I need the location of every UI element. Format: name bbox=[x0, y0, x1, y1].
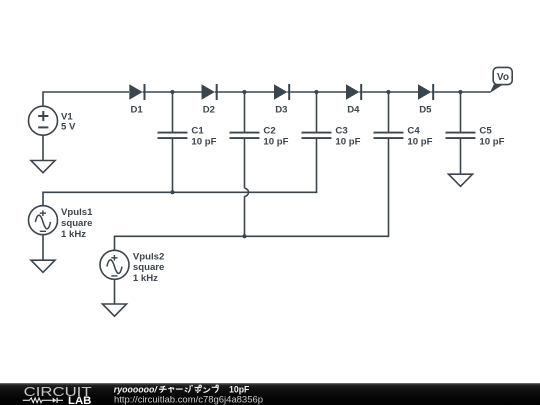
svg-text:Vpuls1: Vpuls1 bbox=[61, 207, 93, 218]
katakana チャージポンプ drawn as paths bbox=[159, 385, 218, 393]
チ bbox=[159, 386, 167, 392]
svg-text:D3: D3 bbox=[275, 105, 287, 116]
svg-text:C4: C4 bbox=[407, 126, 420, 137]
svg-text:D5: D5 bbox=[419, 105, 432, 116]
node junction top C5 bbox=[458, 90, 462, 94]
wire D4 to D5 bbox=[363, 91, 418, 93]
wire Vpuls1 rail bbox=[43, 192, 317, 205]
capacitor C2 bbox=[230, 92, 260, 188]
ground below C5 bbox=[449, 174, 473, 186]
svg-text:http://circuitlab.com/c78g6j4a: http://circuitlab.com/c78g6j4a8356p bbox=[114, 394, 263, 404]
svg-text:5 V: 5 V bbox=[61, 122, 76, 133]
wire D1 to D2 bbox=[146, 91, 202, 93]
ー bbox=[176, 388, 183, 390]
logo wire to LAB bbox=[57, 399, 63, 401]
svg-text:10 pF: 10 pF bbox=[407, 136, 432, 147]
svg-text:square: square bbox=[61, 218, 92, 229]
ン bbox=[203, 388, 210, 393]
capacitor C5 bbox=[446, 92, 476, 174]
logo CIRCUIT LAB wordmark bbox=[24, 385, 92, 405]
ポ bbox=[195, 385, 202, 392]
svg-text:1 kHz: 1 kHz bbox=[133, 273, 158, 284]
svg-text:C1: C1 bbox=[191, 126, 204, 137]
svg-text:Vo: Vo bbox=[497, 72, 509, 83]
wire hop C2 over Vpuls1 rail bbox=[245, 188, 249, 196]
node junction C1 bottom bbox=[170, 190, 174, 194]
svg-text:D4: D4 bbox=[347, 105, 360, 116]
svg-text:C2: C2 bbox=[263, 126, 275, 137]
diode D2 bbox=[202, 84, 219, 100]
wire Vpuls2 to ground bbox=[114, 280, 116, 304]
logo diode glyph bbox=[53, 398, 57, 403]
svg-text:10 pF: 10 pF bbox=[335, 136, 360, 147]
wire Vpuls1 to ground bbox=[42, 235, 44, 260]
diode D1 bbox=[129, 84, 146, 100]
プ bbox=[212, 385, 219, 392]
ground below Vpuls2 bbox=[103, 304, 127, 316]
svg-text:C5: C5 bbox=[479, 126, 492, 137]
node junction top C2 bbox=[242, 90, 246, 94]
wire D3 to D4 bbox=[291, 91, 346, 93]
voltage source Vpuls1 bbox=[29, 206, 58, 235]
capacitor C4 bbox=[374, 92, 404, 236]
svg-text:10pF: 10pF bbox=[229, 385, 250, 395]
node junction top C4 bbox=[386, 90, 390, 94]
wire V1 to ground bbox=[42, 136, 44, 161]
svg-text:C3: C3 bbox=[335, 126, 347, 137]
capacitor C3 bbox=[302, 92, 332, 192]
capacitor C1 bbox=[158, 92, 188, 192]
node junction top C1 bbox=[170, 90, 174, 94]
svg-text:Vpuls2: Vpuls2 bbox=[133, 251, 164, 262]
svg-text:1 kHz: 1 kHz bbox=[61, 229, 86, 240]
ジ bbox=[185, 385, 193, 393]
node flag Vo bbox=[490, 67, 512, 93]
svg-text:D2: D2 bbox=[203, 105, 215, 116]
wire Vpuls2 rail bbox=[115, 236, 389, 250]
ャ bbox=[168, 387, 173, 393]
footer credit line bbox=[114, 385, 263, 405]
wire D2 to D3 bbox=[218, 91, 274, 93]
wire C2 to Vpuls2 rail bbox=[244, 196, 246, 236]
logo resistor glyph bbox=[23, 398, 63, 403]
svg-text:D1: D1 bbox=[131, 105, 144, 116]
diode D3 bbox=[274, 84, 291, 100]
voltage source Vpuls2 bbox=[100, 250, 129, 279]
wire D5 to Vo bbox=[435, 91, 491, 93]
svg-text:LAB: LAB bbox=[68, 395, 92, 405]
svg-text:ryoooooo: ryoooooo bbox=[114, 385, 155, 395]
ground below V1 bbox=[31, 161, 55, 173]
svg-text:10 pF: 10 pF bbox=[263, 136, 288, 147]
svg-text:10 pF: 10 pF bbox=[191, 136, 216, 147]
diode D5 bbox=[418, 84, 435, 100]
diode D4 bbox=[346, 84, 363, 100]
wire top rail V1 to D1 bbox=[43, 92, 129, 106]
ground below Vpuls1 bbox=[31, 260, 55, 272]
footer bar bbox=[0, 383, 540, 405]
node junction top C3 bbox=[314, 90, 318, 94]
svg-text:square: square bbox=[133, 262, 164, 273]
node junction C2 bottom bbox=[242, 234, 246, 238]
voltage source V1 bbox=[29, 106, 58, 135]
svg-text:10 pF: 10 pF bbox=[479, 136, 504, 147]
logo wire to diode bbox=[44, 399, 53, 401]
